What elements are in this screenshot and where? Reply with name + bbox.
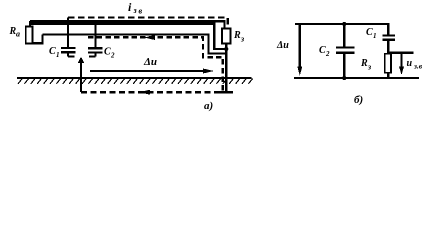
label b) (354, 94, 363, 106)
ground earth hatching (18, 79, 253, 84)
svg-text:з: з (240, 35, 244, 44)
wire C1b to Rsb (387, 41, 389, 54)
resistor Rs panel b (385, 54, 391, 73)
wire bottom rail panel b (294, 77, 419, 79)
capacitor C2 plates (88, 47, 103, 49)
svg-text:Δu: Δu (276, 40, 289, 51)
svg-text:C: C (366, 27, 373, 38)
capacitor C1 plates (61, 47, 76, 49)
node dot C2b top (342, 22, 346, 26)
wire Ra top stub (29, 21, 31, 27)
capacitor C1 panel b plates (383, 34, 396, 36)
svg-text:R: R (360, 58, 368, 69)
svg-text:C: C (104, 47, 111, 58)
svg-text:в: в (139, 7, 143, 16)
label C1 (49, 46, 60, 59)
svg-text:Δu: Δu (143, 56, 157, 68)
wire C2 riser (94, 24, 96, 48)
svg-text:1: 1 (56, 51, 60, 59)
wire top rail panel b (295, 24, 388, 35)
svg-text:C: C (49, 46, 56, 57)
svg-text:R: R (233, 30, 241, 41)
wire C2 bottom lead and corner (89, 54, 96, 57)
label a) (204, 100, 213, 112)
svg-text:б): б) (354, 94, 363, 106)
label delta u panel b (276, 40, 289, 51)
arrow delta u panel b (299, 24, 301, 70)
node junction arrow up (78, 57, 85, 63)
svg-text:2: 2 (325, 50, 330, 58)
svg-text:з.в: з.в (413, 62, 423, 71)
label Rs (233, 30, 244, 44)
wire line conductor 2 (second) (31, 24, 226, 49)
wire delta u arrow panel a (90, 70, 205, 72)
svg-text:1: 1 (373, 32, 377, 40)
label C2 (104, 47, 115, 60)
label u zv (407, 58, 423, 71)
capacitor C2 panel b plates (336, 46, 355, 48)
label Ra (9, 26, 21, 39)
svg-text:а): а) (204, 100, 213, 112)
wire C1 riser (67, 18, 69, 48)
arrow u zv (400, 54, 402, 70)
wire Rsb bottom lead (387, 73, 389, 78)
label delta u panel a (143, 56, 157, 68)
svg-text:з: з (133, 6, 137, 15)
svg-text:i: i (128, 0, 132, 14)
svg-text:u: u (407, 58, 413, 69)
label i zv (128, 0, 143, 16)
wire dashed top path (68, 18, 228, 29)
wire junction down through earth (80, 60, 82, 92)
wire dashed mid path (88, 37, 223, 91)
ground electrode bar right (219, 91, 234, 93)
ground earth line panel a (17, 77, 252, 79)
wire ground bus (third) (43, 35, 227, 54)
wire line conductor 1 (top) (30, 21, 225, 28)
wire dashed bottom return (81, 91, 220, 93)
node junction at Rs bottom lead (224, 47, 228, 51)
label C2 panel b (319, 45, 330, 58)
wire Rs ground lead (225, 44, 227, 94)
resistor Rs (222, 29, 231, 44)
wire C2b bottom lead (343, 54, 345, 78)
wire C1 bottom lead and corner (68, 53, 75, 56)
arrowhead bottom return (left) (139, 90, 150, 95)
svg-text:з: з (367, 63, 371, 72)
svg-text:а: а (16, 30, 20, 39)
label Rs panel b (360, 58, 371, 72)
resistor Ra (26, 27, 33, 44)
wire Ra bottom to bus (33, 35, 43, 44)
wire stub uzv (389, 52, 413, 54)
node dot C2b bottom (342, 76, 346, 80)
svg-text:2: 2 (110, 52, 115, 60)
label C1 panel b (366, 27, 377, 40)
svg-text:C: C (319, 45, 326, 56)
arrowhead delta u right (203, 69, 214, 74)
wire C2b riser (343, 24, 345, 47)
arrowhead mid path (left) (144, 35, 155, 40)
